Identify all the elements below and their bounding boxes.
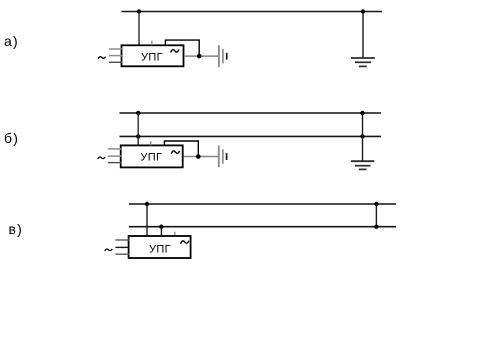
wire: input stub 3 [115, 253, 129, 255]
svg-text:УПГ: УПГ [141, 51, 163, 63]
earth local: bar 3 [226, 53, 228, 60]
junction: loop / output wire [197, 54, 202, 59]
AC source symbol left of UPG [98, 57, 106, 59]
wire: drop 1 from bus C1 to UPG top [146, 204, 148, 236]
wire: drop from buses to remote earth [362, 113, 364, 161]
wire: input stub 2 [108, 155, 121, 157]
wire: drop from buses to UPG top [137, 113, 139, 146]
junction: bus B2 / drop to remote earth [360, 134, 364, 138]
wire: phase bus C2 [129, 226, 396, 228]
junction: bus B1 / drop to remote earth [360, 111, 364, 115]
earth remote: bar 1 [351, 57, 375, 59]
wire: drop from bus A to UPG top [138, 12, 140, 46]
wire: phase bus B2 [120, 135, 382, 137]
wire: feedback loop UPG top to output node [165, 40, 199, 56]
junction: bus C2 / right link [374, 225, 378, 229]
wire: phase bus B1 [120, 112, 382, 114]
wire: phase bus A [122, 11, 383, 13]
AC symbol inside UPG [171, 151, 179, 154]
svg-text:а): а) [4, 33, 19, 49]
wire: input stub 2 [115, 246, 129, 248]
wire: feedback loop UPG top to output node [164, 141, 198, 157]
wire: input stub 3 [108, 162, 121, 164]
wire: input stub 2 [109, 55, 122, 57]
wire: input stub 1 [108, 148, 121, 150]
svg-text:УПГ: УПГ [149, 243, 171, 255]
wire: input stub 1 [115, 239, 129, 241]
generator UPG box [129, 236, 191, 258]
earth local: bar 2 [222, 149, 224, 164]
generator UPG box [121, 145, 183, 167]
wire: phase bus C1 [129, 203, 396, 205]
junction: bus B2 / drop [136, 134, 140, 138]
svg-text:УПГ: УПГ [140, 151, 162, 163]
wire: input stub 1 [109, 48, 122, 50]
earth remote: bar 2 [355, 165, 371, 167]
wire: UPG output to local earth [184, 55, 218, 57]
junction: bus B1 / drop [136, 111, 140, 115]
pin stub on UPG top [174, 232, 176, 237]
earth local: bar 1 [218, 45, 220, 67]
AC source symbol left of UPG [98, 157, 106, 159]
svg-text:в): в) [9, 221, 24, 237]
junction: bus C1 / right link [374, 202, 378, 206]
wire: drop 2 from bus C2 to UPG top [160, 227, 162, 237]
junction: bus C1 / drop 1 [145, 202, 149, 206]
earth local: bar 2 [222, 49, 224, 64]
earth remote: bar 2 [355, 61, 371, 63]
earth remote: bar 1 [351, 160, 374, 162]
generator UPG box [122, 45, 184, 66]
earth remote: bar 3 [359, 65, 367, 67]
earth remote: bar 3 [359, 168, 367, 170]
pin stub on UPG top [151, 41, 153, 46]
wire: right link between buses [375, 204, 377, 227]
junction: bus A / drop to UPG [137, 9, 141, 13]
wire: input stub 3 [109, 61, 122, 63]
AC symbol inside UPG [181, 241, 189, 244]
AC symbol inside UPG [171, 50, 179, 53]
wire: drop from bus A to remote earth [362, 12, 364, 58]
svg-text:б): б) [4, 130, 19, 146]
junction: loop / output wire [196, 154, 201, 159]
junction: bus A / drop to remote earth [361, 9, 365, 13]
wire: UPG output to local earth [184, 156, 219, 158]
junction: bus C2 / drop 2 [159, 225, 163, 229]
pin stub on UPG top [150, 141, 152, 145]
earth local: bar 1 [218, 146, 220, 168]
earth local: bar 3 [226, 153, 228, 160]
AC source symbol left of UPG [105, 249, 113, 251]
